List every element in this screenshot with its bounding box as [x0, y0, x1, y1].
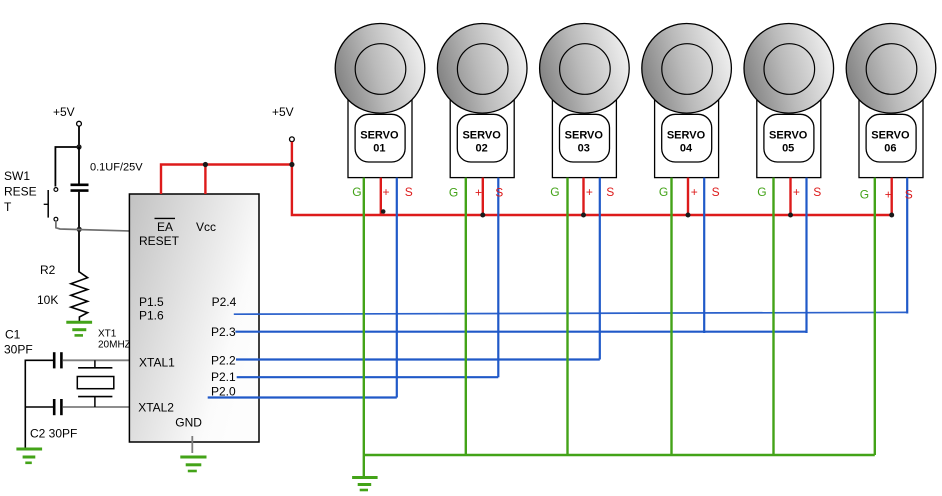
servo 05 label box — [764, 114, 814, 162]
servo motor SERVO 02 body — [450, 100, 514, 178]
wire P2.1 to servo signal — [237, 376, 499, 378]
svg-text:C1: C1 — [5, 328, 21, 342]
wire servo 03 power pin + — [582, 178, 584, 215]
node servo 03 power junction — [581, 213, 586, 218]
svg-text:01: 01 — [373, 143, 385, 155]
op IC U1 microcontroller body — [129, 194, 259, 442]
label SW1 RESET — [4, 169, 37, 214]
svg-text:SERVO: SERVO — [769, 130, 808, 142]
red wire +5V terminal down to servo bus — [292, 142, 892, 215]
label C1 30PF — [4, 328, 33, 357]
ground below R2 — [66, 322, 92, 335]
svg-text:XTAL1: XTAL1 — [139, 356, 175, 370]
left rail down to ground — [24, 360, 26, 449]
svg-text:SERVO: SERVO — [360, 130, 399, 142]
wire junction to switch top terminal — [55, 147, 79, 187]
servo 06 gear circle outer — [846, 24, 936, 114]
node: +5V / switch junction — [76, 144, 81, 149]
svg-text:XT1: XT1 — [98, 329, 117, 340]
svg-text:S: S — [606, 185, 614, 199]
node on +5V rail at Vcc — [203, 162, 208, 167]
servo 03 gear circle outer — [540, 24, 630, 114]
svg-text:T: T — [4, 200, 12, 214]
wire servo 05 power pin + — [789, 178, 791, 215]
wire servo 06 signal pin S — [906, 178, 908, 314]
crystal XT1 — [77, 360, 114, 407]
capacitor 0.1UF/25V — [71, 162, 144, 191]
servo 05 gear circle outer — [744, 24, 834, 114]
wire switch bottom to RESET pin of IC — [56, 221, 130, 231]
pin labels G + S of servo 01 — [352, 185, 412, 199]
svg-text:S: S — [712, 185, 720, 199]
wire bus to system ground — [363, 455, 365, 476]
servo 03 label box — [560, 114, 610, 162]
ground below GND pin — [180, 457, 206, 471]
svg-text:P2.1: P2.1 — [211, 370, 236, 384]
servo 04 gear circle inner — [662, 44, 713, 95]
power terminal +5V (left) — [53, 105, 81, 126]
servo motor SERVO 04 body — [655, 100, 719, 178]
wire +5V terminal down to switch junction — [78, 126, 80, 148]
servo motor SERVO 05 body — [757, 100, 821, 178]
wire servo 06 ground pin G — [874, 178, 876, 455]
red wire Vcc pin — [204, 165, 206, 195]
svg-text:05: 05 — [782, 143, 794, 155]
servo 04 gear circle outer — [642, 24, 732, 114]
wire P2.4 to servo signal — [234, 312, 907, 314]
node servo 04 power junction — [686, 213, 691, 218]
label XT1 20MHZ — [98, 329, 131, 351]
resistor R2 — [71, 272, 88, 321]
wire C1 left to rail — [25, 359, 53, 361]
svg-text:SW1: SW1 — [4, 169, 30, 183]
node servo 01 power junction — [381, 209, 386, 214]
node: reset junction — [77, 227, 82, 232]
servo 05 gear circle inner — [764, 44, 815, 95]
wire servo 05 ground pin G — [772, 178, 774, 455]
green ground bus — [364, 454, 875, 456]
wire servo 02 power pin + — [482, 178, 484, 215]
svg-text:R2: R2 — [40, 263, 56, 277]
svg-text:C2 30PF: C2 30PF — [30, 427, 77, 441]
power terminal +5V (right) — [272, 105, 294, 142]
svg-text:P1.6: P1.6 — [139, 309, 164, 323]
wire servo 03 signal pin S — [599, 178, 601, 360]
servo 06 gear circle inner — [866, 44, 917, 95]
label SERVO 06 — [871, 130, 910, 155]
node servo 02 power junction — [480, 213, 485, 218]
servo 06 label box — [866, 114, 916, 162]
wire P2.0 to servo signal — [208, 396, 397, 398]
servo 01 label box — [355, 114, 405, 162]
label SERVO 04 — [667, 130, 706, 155]
svg-text:XTAL2: XTAL2 — [138, 401, 174, 415]
svg-text:0.1UF/25V: 0.1UF/25V — [90, 162, 143, 174]
svg-text:EA: EA — [157, 220, 173, 234]
wire XTAL1 (C1 to IC) — [63, 359, 130, 361]
svg-text:+5V: +5V — [272, 105, 294, 119]
svg-text:S: S — [813, 185, 821, 199]
svg-text:03: 03 — [578, 143, 590, 155]
label SERVO 02 — [462, 130, 501, 155]
node servo 05 power junction — [788, 213, 793, 218]
pin labels G + S of servo 04 — [659, 185, 720, 199]
wire GND pin to ground — [191, 436, 193, 453]
svg-text:G: G — [449, 185, 458, 199]
capacitor C1 — [54, 352, 61, 368]
svg-text:+: + — [586, 185, 593, 199]
svg-text:SERVO: SERVO — [871, 130, 910, 142]
pin label EA (with overline) — [155, 218, 176, 234]
servo 02 gear circle outer — [437, 24, 527, 114]
servo 01 gear circle inner — [355, 44, 406, 95]
svg-text:RESET: RESET — [139, 234, 180, 248]
wire servo 05 signal pin S — [805, 178, 807, 333]
pin labels G + S of servo 06 — [860, 188, 913, 202]
svg-text:10K: 10K — [37, 293, 58, 307]
wire servo 01 power pin + — [380, 178, 382, 215]
svg-text:SERVO: SERVO — [565, 130, 604, 142]
wire servo 02 signal pin S — [497, 178, 499, 378]
red wire EA pin to +5V rail — [161, 165, 292, 195]
svg-text:S: S — [405, 185, 413, 199]
node at +5V rail junction — [289, 162, 294, 167]
servo 03 gear circle inner — [560, 44, 611, 95]
wire servo 06 power pin + — [891, 178, 893, 215]
wire C2 left to rail — [25, 406, 53, 408]
svg-text:30PF: 30PF — [4, 343, 33, 357]
node servo 06 power junction — [889, 213, 894, 218]
label SERVO 01 — [360, 130, 399, 155]
servo 01 gear circle outer — [335, 24, 425, 114]
svg-text:+: + — [383, 185, 390, 199]
svg-text:+5V: +5V — [53, 105, 75, 119]
pin labels G + S of servo 05 — [757, 185, 821, 199]
svg-text:P2.2: P2.2 — [211, 354, 236, 368]
wire capacitor bottom plate to resistor R2 — [78, 192, 80, 273]
wire P2.3 to servo signal — [235, 331, 806, 333]
svg-text:P2.4: P2.4 — [212, 295, 237, 309]
svg-text:SERVO: SERVO — [667, 130, 706, 142]
svg-text:02: 02 — [475, 143, 487, 155]
ground below C1/C2 rail — [16, 449, 42, 463]
servo 02 label box — [457, 114, 507, 162]
svg-text:Vcc: Vcc — [196, 220, 216, 234]
wire servo 01 ground pin G — [363, 178, 365, 455]
servo motor SERVO 03 body — [552, 100, 616, 178]
svg-text:P1.5: P1.5 — [139, 295, 164, 309]
label SERVO 03 — [565, 130, 604, 155]
servo 02 gear circle inner — [457, 44, 508, 95]
wire P2.2 to servo signal — [236, 358, 600, 360]
svg-text:P2.3: P2.3 — [211, 325, 236, 339]
ground (system) — [352, 478, 378, 491]
wire servo 02 ground pin G — [465, 178, 467, 455]
servo motor SERVO 06 body — [859, 100, 923, 178]
wire servo 04 signal pin S — [703, 178, 705, 333]
svg-text:04: 04 — [680, 143, 693, 155]
svg-text:S: S — [905, 188, 913, 202]
svg-text:GND: GND — [175, 416, 202, 430]
wire XTAL2 (C2 to IC) — [63, 406, 130, 408]
svg-text:G: G — [757, 185, 766, 199]
svg-text:S: S — [495, 185, 503, 199]
svg-text:SERVO: SERVO — [462, 130, 501, 142]
svg-text:G: G — [550, 185, 559, 199]
capacitor C2 — [54, 399, 61, 415]
label SERVO 05 — [769, 130, 808, 155]
servo 04 label box — [662, 114, 712, 162]
svg-text:RESE: RESE — [4, 185, 37, 199]
switch SW1 (push-button) — [44, 188, 58, 222]
svg-text:06: 06 — [884, 143, 896, 155]
pin labels G + S of servo 02 — [449, 185, 503, 199]
wire junction to capacitor top plate — [78, 147, 80, 184]
pin labels G + S of servo 03 — [550, 185, 614, 199]
wire servo 03 ground pin G — [566, 178, 568, 455]
svg-text:+: + — [885, 188, 892, 202]
svg-text:G: G — [352, 185, 361, 199]
servo motor SERVO 01 body — [348, 100, 412, 178]
wire servo 04 power pin + — [687, 178, 689, 215]
svg-text:G: G — [659, 185, 668, 199]
svg-text:+: + — [691, 185, 698, 199]
wire servo 04 ground pin G — [670, 178, 672, 455]
svg-text:20MHZ: 20MHZ — [98, 340, 131, 351]
wire servo 01 signal pin S — [396, 178, 398, 398]
svg-text:+: + — [475, 185, 482, 199]
svg-text:+: + — [793, 185, 800, 199]
svg-text:G: G — [860, 188, 869, 202]
